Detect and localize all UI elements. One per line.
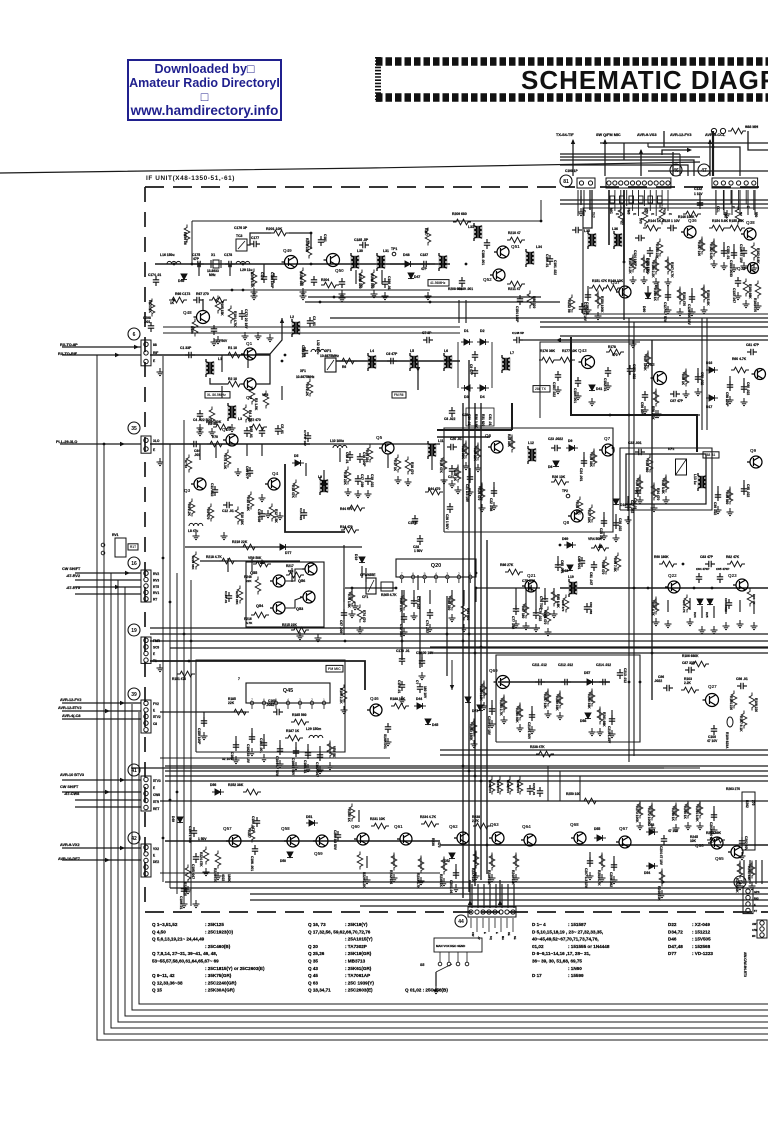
- wire pin FM6: [626, 190, 628, 206]
- resistor: [475, 443, 481, 461]
- wire stub: [713, 606, 715, 618]
- resistor R265 box: [381, 582, 393, 591]
- KF2 block outline: [620, 448, 712, 510]
- arrow AVR-9-VS3: [639, 149, 643, 154]
- IF unit frame top dashed: [145, 186, 575, 188]
- capacitor C21b: [467, 473, 473, 483]
- dot anchor: [103, 443, 105, 445]
- junction: [711, 587, 714, 590]
- left wire 191: [190, 580, 192, 906]
- ground: [293, 762, 300, 770]
- svg-text:R194 4.7K: R194 4.7K: [233, 311, 237, 327]
- resistor: [249, 424, 267, 430]
- capacitor C128: [689, 293, 695, 303]
- svg-text:C211 .012: C211 .012: [532, 663, 547, 667]
- ground C171: [211, 338, 218, 346]
- svg-text:7: 7: [401, 572, 403, 576]
- svg-text:: 1N60: : 1N60: [568, 966, 582, 971]
- wire stub: [589, 200, 591, 210]
- svg-text:RV1: RV1: [153, 591, 159, 595]
- ground L3: [229, 424, 236, 432]
- capacitor C33: [635, 449, 645, 455]
- svg-text:44: 44: [458, 919, 464, 925]
- small parts box mixer bias: [466, 408, 494, 426]
- svg-text:Q53: Q53: [296, 607, 303, 611]
- svg-text:C87 33P: C87 33P: [682, 661, 696, 665]
- svg-text:Q19: Q19: [222, 427, 231, 432]
- resistor: [536, 751, 554, 757]
- switch S5 contact 1: [438, 962, 442, 966]
- resistor: [649, 803, 655, 821]
- wrap wire 6: [132, 704, 768, 1010]
- wire into Q45 row: [160, 711, 246, 713]
- svg-text:RT: RT: [153, 598, 157, 602]
- IF transformer L3: [228, 406, 237, 419]
- wire conn43 drop: [755, 860, 757, 884]
- svg-text:R10 33K: R10 33K: [240, 512, 244, 525]
- switch box S5 label: [434, 938, 482, 952]
- svg-text:AVR-12-FV3: AVR-12-FV3: [670, 133, 691, 137]
- wire stub: [603, 512, 605, 524]
- ground: [721, 262, 728, 270]
- wire RX-TO-RIF: [62, 354, 141, 356]
- wire stub: [475, 588, 477, 602]
- svg-text:RE: RE: [507, 932, 511, 936]
- transistor Q6: [488, 441, 503, 453]
- ground: [663, 496, 670, 504]
- capacitor C1: [185, 352, 195, 358]
- RX signal wire: [150, 354, 270, 356]
- ground: [630, 340, 637, 348]
- svg-text:Q8: Q8: [563, 520, 570, 525]
- svg-text:R202 680: R202 680: [299, 272, 303, 286]
- noise blanker block outline: [444, 428, 613, 532]
- svg-text:AW-C/W-9N-RT3: AW-C/W-9N-RT3: [743, 952, 747, 977]
- svg-text:R190 2.2K: R190 2.2K: [339, 688, 343, 704]
- svg-text:L33: L33: [468, 225, 474, 229]
- wire stub: [701, 238, 703, 250]
- svg-text:FMR: FMR: [153, 639, 161, 643]
- svg-text:C194 1 50V: C194 1 50V: [188, 826, 192, 844]
- resistor: [473, 823, 491, 829]
- capacitor C162: [249, 733, 255, 743]
- IF transformer L1: [206, 362, 215, 375]
- wire pin T17: [589, 190, 591, 210]
- resistor: [349, 804, 355, 822]
- wire stub: [235, 736, 237, 748]
- wire conn44 drop: [477, 884, 479, 908]
- resistor: [215, 851, 221, 869]
- svg-text:R85 8.8K: R85 8.8K: [556, 594, 560, 608]
- ground L8: [193, 532, 200, 540]
- wire stub: [599, 708, 601, 720]
- wire stub: [351, 588, 353, 600]
- svg-text:R185 560: R185 560: [292, 713, 307, 717]
- capacitor C75: [525, 585, 535, 591]
- wire stub: [597, 292, 599, 304]
- wire stub: [725, 602, 727, 614]
- wire stub: [307, 744, 309, 756]
- capacitor C98: [737, 683, 747, 689]
- svg-text:R255 2.7K: R255 2.7K: [499, 700, 503, 716]
- capacitor C193: [226, 592, 232, 602]
- svg-text:R225 470: R225 470: [213, 868, 217, 882]
- svg-text:D 1~ 4: D 1~ 4: [532, 922, 546, 927]
- resistor: [647, 455, 653, 473]
- junction: [242, 289, 245, 292]
- resistor: [237, 586, 243, 604]
- resistor: [741, 711, 747, 729]
- svg-text:L16 150u: L16 150u: [160, 253, 175, 257]
- ground: [587, 872, 594, 880]
- svg-text:: 25C460(B): : 25C460(B): [205, 944, 231, 949]
- resistor: [215, 296, 221, 314]
- svg-text:R160 68K: R160 68K: [748, 284, 752, 299]
- svg-text:D69: D69: [562, 537, 568, 541]
- ground: [193, 900, 200, 908]
- ground: [233, 756, 240, 764]
- wire stub: [643, 256, 645, 268]
- resistor: [441, 857, 447, 875]
- svg-text:C6 47P: C6 47P: [386, 352, 398, 356]
- wire top 154: [560, 153, 680, 155]
- wire stub: [465, 442, 467, 454]
- capacitor C83: [705, 561, 715, 567]
- wire stub: [491, 700, 493, 714]
- svg-text:D72: D72: [472, 709, 478, 713]
- wire stub: [291, 568, 293, 582]
- connector 35: [141, 436, 151, 453]
- capacitor C153: [627, 365, 633, 375]
- resistor top right: [728, 128, 746, 134]
- svg-text:E: E: [495, 932, 499, 934]
- junction: [480, 780, 483, 783]
- ground: [613, 534, 620, 542]
- ground: [601, 532, 608, 540]
- svg-text:Q7: Q7: [604, 436, 611, 441]
- capacitor C17: [355, 475, 361, 485]
- junction: [693, 587, 696, 590]
- svg-text:9N: 9N: [752, 934, 755, 938]
- arrow VR4: [598, 543, 602, 548]
- IF unit frame left dashed: [144, 187, 146, 912]
- resistor: [497, 777, 503, 795]
- resistor: [655, 283, 661, 301]
- ground: [267, 334, 274, 342]
- svg-text:.001: .001: [144, 320, 151, 324]
- pin box 5: [648, 196, 653, 203]
- capacitor C14: [301, 509, 307, 519]
- svg-text:R163 470: R163 470: [682, 292, 686, 306]
- ground: [441, 476, 448, 484]
- svg-text:R217: R217: [286, 564, 294, 568]
- arrow CW8: [105, 790, 110, 794]
- capacitor C82: [584, 603, 590, 613]
- IF unit frame top dashed right: [600, 186, 768, 188]
- resistor: [345, 467, 351, 485]
- svg-text:R212 56: R212 56: [567, 300, 571, 313]
- wire conn81 stub: [591, 190, 593, 216]
- IF transformer L34: [526, 252, 535, 265]
- svg-text:AVR-9-VX2: AVR-9-VX2: [60, 843, 80, 847]
- bus wire 634: [150, 633, 768, 635]
- wire arrow drop: [451, 660, 453, 690]
- svg-text:: 35K75(GR): : 35K75(GR): [205, 973, 232, 978]
- capacitor C18: [347, 451, 353, 461]
- inner box bottom wire: [308, 296, 541, 298]
- wire stub: [557, 556, 559, 566]
- wire RV2: [75, 572, 141, 574]
- capacitor C28b: [447, 503, 453, 513]
- IF transformer L13: [698, 476, 707, 489]
- junction: [633, 587, 636, 590]
- svg-text:R177 10K: R177 10K: [562, 349, 578, 353]
- wire stub: [653, 484, 655, 496]
- svg-text:: 25C2603(E): : 25C2603(E): [345, 988, 373, 993]
- diode D58: [585, 713, 591, 719]
- capacitor C58: [727, 381, 733, 391]
- ground: [259, 494, 266, 502]
- capacitor C196: [181, 885, 187, 895]
- capacitor C85b: [555, 561, 561, 571]
- IF row bias wire: [210, 289, 430, 291]
- svg-text:R152 5.6K: R152 5.6K: [709, 244, 713, 260]
- svg-text:D46: D46: [668, 937, 677, 942]
- svg-text:Q21: Q21: [527, 573, 536, 578]
- svg-text:2.2K: 2.2K: [684, 681, 692, 685]
- svg-text:D54: D54: [644, 871, 650, 875]
- junction: [103, 443, 106, 446]
- diode D4: [477, 385, 489, 391]
- diode D54: [646, 863, 658, 869]
- wire conn44 drop: [501, 884, 503, 908]
- svg-text:C67 .009: C67 .009: [339, 620, 343, 633]
- bus wire A: [462, 403, 464, 898]
- capacitor C13: [259, 510, 265, 520]
- wire pin L: [655, 190, 657, 216]
- wire stub: [203, 712, 205, 726]
- svg-text:R25 33K: R25 33K: [589, 454, 593, 467]
- svg-text:81: 81: [563, 179, 569, 185]
- capacitor C179: [261, 273, 267, 283]
- IF transformer L9: [320, 480, 329, 493]
- svg-text:C84 470P: C84 470P: [696, 567, 709, 571]
- svg-text:: 25K19(GR): : 25K19(GR): [345, 951, 372, 956]
- ground: [221, 532, 228, 540]
- wire stub: [667, 600, 669, 612]
- ground: [339, 294, 346, 302]
- wire stub: [691, 288, 693, 300]
- capacitor C67: [259, 427, 265, 437]
- title box dashed border top: [376, 57, 768, 66]
- svg-text:E: E: [153, 448, 156, 452]
- svg-text:C159 100P: C159 100P: [197, 728, 201, 745]
- capacitor C16: [357, 453, 363, 463]
- svg-text:D1: D1: [464, 329, 469, 333]
- boxed label FM MIC: [326, 665, 343, 672]
- junction: [480, 646, 483, 649]
- svg-text:C8: C8: [153, 722, 157, 726]
- svg-text:: TA7061AP: : TA7061AP: [345, 973, 370, 978]
- wire S5 common: [435, 972, 437, 986]
- svg-text:D57: D57: [584, 671, 590, 675]
- wire stub: [703, 286, 705, 298]
- wire Q54 to Q53: [285, 597, 303, 608]
- wire stub: [679, 288, 681, 300]
- wire stub: [431, 456, 433, 470]
- ground: [365, 490, 372, 498]
- svg-text:E: E: [615, 213, 619, 215]
- wire SW Q/FM MIC: [604, 140, 606, 176]
- IF transformer L12: [528, 449, 537, 462]
- wire conn44 pin 1: [470, 918, 472, 928]
- ring left wire: [457, 342, 459, 388]
- wire PLL-29-3LO: [60, 443, 141, 445]
- wire stub: [393, 854, 395, 866]
- arrow mixer out: [556, 338, 561, 342]
- svg-text:L19: L19: [568, 575, 574, 579]
- resistor: [735, 207, 741, 225]
- pin box 3: [629, 196, 634, 203]
- capacitor C213: [617, 669, 623, 679]
- capacitor C65: [244, 427, 250, 437]
- junction: [429, 301, 432, 304]
- ground: [317, 766, 324, 774]
- wire stub: [511, 436, 513, 448]
- resistor: [507, 281, 525, 287]
- wire RT5: [75, 586, 141, 588]
- resistor: [489, 853, 495, 871]
- transistor Q66: [708, 837, 723, 849]
- svg-text:R87 180: R87 180: [521, 606, 525, 618]
- diode D8: [553, 461, 559, 467]
- capacitor C72: [401, 613, 407, 623]
- resistor: [401, 593, 407, 611]
- bus wire 647: [430, 646, 768, 648]
- capacitor C175: [194, 261, 204, 267]
- svg-text:5TV3: 5TV3: [153, 779, 161, 783]
- svg-text:C186 .01: C186 .01: [387, 276, 391, 290]
- wire stub: [221, 355, 223, 372]
- bus wire E: [486, 540, 488, 874]
- junction: [242, 263, 245, 266]
- bus wire 776: [165, 775, 768, 777]
- svg-text:CM3 .01: CM3 .01: [301, 345, 305, 358]
- wire row 415: [620, 414, 700, 416]
- resistor: [177, 671, 195, 677]
- ground: [352, 602, 359, 610]
- ground: [655, 410, 662, 418]
- resistor: [306, 241, 312, 259]
- svg-text:R18 470: R18 470: [410, 462, 414, 474]
- svg-text:Q 5,6,13,19,21~ 24,44,49: Q 5,6,13,19,21~ 24,44,49: [152, 937, 205, 942]
- bus wire 200: [560, 199, 768, 201]
- wire S5 contact 2: [448, 952, 450, 962]
- wire stub: [366, 856, 368, 868]
- svg-text:C203 820 10V: C203 820 10V: [709, 822, 713, 844]
- svg-text:SC9: SC9: [153, 646, 159, 650]
- svg-text:C74 .047: C74 .047: [425, 620, 429, 633]
- diode D77: [277, 544, 289, 550]
- svg-text:.0082: .0082: [266, 703, 275, 707]
- svg-text:4: 4: [287, 698, 289, 702]
- svg-text:L13 1u: L13 1u: [693, 474, 697, 485]
- ground S5: [433, 986, 440, 994]
- resistor: [677, 287, 683, 305]
- ground: [261, 754, 268, 762]
- ground: [727, 508, 734, 516]
- ground: [209, 428, 216, 436]
- ground: [411, 612, 418, 620]
- wire VX2: [62, 847, 141, 849]
- ground: [741, 262, 748, 270]
- bus wire F: [628, 318, 630, 762]
- svg-text:47P: 47P: [193, 257, 200, 261]
- resistor: [637, 801, 643, 819]
- svg-text:C177: C177: [251, 236, 259, 240]
- junction: [446, 633, 449, 636]
- svg-text:C79 .022: C79 .022: [538, 608, 542, 621]
- wire conn44 pin 3: [482, 918, 484, 928]
- wire stub: [613, 856, 615, 868]
- pin box 4: [639, 196, 644, 203]
- downloaded-by info box: [127, 59, 282, 121]
- capacitor C148: [513, 337, 523, 343]
- transistor Q57: [226, 835, 241, 847]
- wire to D48: [390, 263, 435, 265]
- capacitor C79: [533, 609, 539, 619]
- svg-text:R267 470: R267 470: [496, 780, 500, 793]
- svg-text:L5: L5: [410, 349, 414, 353]
- svg-text:Q59: Q59: [314, 851, 323, 856]
- ground connector 6: [157, 368, 164, 376]
- wire stub: [381, 270, 383, 284]
- capacitor C20: [447, 444, 457, 450]
- arrow FM path: [416, 367, 420, 372]
- svg-text:: 25C1815(Y) or 25C2603(E): : 25C1815(Y) or 25C2603(E): [205, 966, 265, 971]
- svg-text:D44: D44: [416, 697, 422, 701]
- resistor: [653, 597, 659, 615]
- ground: [327, 762, 334, 770]
- svg-text:R4 2.2K: R4 2.2K: [305, 384, 309, 397]
- junction: [475, 587, 478, 590]
- transistor Q7: [599, 444, 614, 456]
- resistor: [209, 407, 215, 425]
- wrap wire 4: [118, 580, 768, 1022]
- thick wire to Q43: [571, 337, 576, 415]
- ground: [743, 300, 750, 308]
- CW cluster outline: [246, 562, 324, 627]
- svg-text:R20 22K: R20 22K: [473, 448, 477, 461]
- svg-text:01,02: 01,02: [532, 944, 544, 949]
- junction: [319, 301, 322, 304]
- terminal circle a: [101, 543, 105, 547]
- bus wire 900: [250, 899, 768, 901]
- connector 43: [743, 888, 753, 914]
- pin box 1: [610, 196, 615, 203]
- connector number 6: [128, 328, 140, 340]
- title box dashed border left: [375, 57, 381, 102]
- svg-text:R74 470: R74 470: [362, 610, 366, 622]
- svg-text:R237 100: R237 100: [471, 868, 475, 882]
- resistor: [523, 601, 529, 619]
- transistor Q22: [665, 581, 680, 593]
- wire stub: [355, 270, 357, 284]
- svg-text:AVR-12-FV2: AVR-12-FV2: [60, 698, 81, 702]
- svg-text:C201 .04: C201 .04: [449, 880, 453, 893]
- wire into CF1: [345, 587, 396, 589]
- junction: [191, 263, 194, 266]
